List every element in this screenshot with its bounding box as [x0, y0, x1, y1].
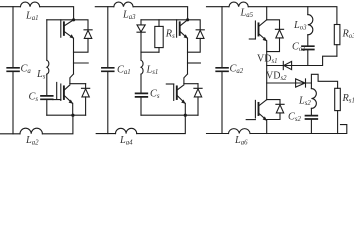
- diode VD7 antiparallel lower circuit 3: [267, 100, 284, 120]
- wire mid jog circuit 1: [70, 74, 74, 84]
- wire V3 emitter to mid node: [187, 38, 189, 74]
- resistor Rs1: [335, 88, 341, 110]
- node P2 junction dot: [186, 18, 189, 21]
- transistor V3 channel bar: [179, 22, 181, 35]
- svg-text:La1: La1: [25, 11, 39, 22]
- transistor V4 channel bar: [176, 86, 178, 99]
- inductor Ls1: [141, 60, 143, 74]
- wire V1 emitter to mid node: [73, 38, 75, 74]
- wire upper switch column circuit 3: [266, 7, 268, 20]
- transistor V6 gate bar: [254, 100, 256, 118]
- svg-text:Ls: Ls: [36, 69, 46, 80]
- wire V2 emitter to bottom node: [72, 103, 74, 115]
- inductor La3: [114, 2, 133, 7]
- wire V4 gate stub: [166, 83, 173, 85]
- transistor V5 channel bar: [258, 23, 260, 35]
- capacitor Ca: [7, 68, 19, 72]
- capacitor Co1: [302, 46, 314, 49]
- inductor La6: [229, 129, 251, 134]
- wire V4 emitter to bottom node: [184, 103, 186, 115]
- transistor V1 channel bar: [63, 22, 65, 35]
- wire left rail circuit 3: [221, 7, 223, 134]
- capacitor Ca2: [216, 68, 228, 72]
- transistor V3 emitter lead with arrow: [180, 32, 187, 38]
- transistor V4 emitter lead with arrow: [178, 96, 186, 103]
- wire top rail circuit 3: [207, 7, 337, 25]
- svg-text:La2: La2: [25, 135, 39, 145]
- resistor Rs: [158, 20, 160, 52]
- wire left rail circuit 1: [12, 7, 14, 134]
- wire lower collector net circuit 1: [70, 83, 86, 85]
- svg-text:Ca: Ca: [21, 64, 32, 75]
- inductor Ls: [47, 60, 49, 74]
- wire lower node horizontal circuit 1: [47, 114, 86, 116]
- inductor La4: [116, 128, 137, 133]
- wire top rail circuit 2: [95, 7, 187, 20]
- svg-text:Ro3: Ro3: [342, 29, 354, 40]
- svg-text:Co1: Co1: [292, 42, 306, 53]
- transistor V4 collector lead: [178, 85, 184, 90]
- svg-text:Cs: Cs: [150, 89, 160, 100]
- resistor Ro3: [334, 25, 340, 45]
- transistor V1 collector lead: [65, 20, 74, 26]
- capacitor Cs2: [306, 116, 318, 119]
- diode VDs1: [282, 61, 284, 69]
- inductor La1: [20, 2, 39, 7]
- svg-text:Ls2: Ls2: [298, 96, 311, 107]
- inductor La2: [20, 128, 42, 134]
- inductor Ls2: [311, 89, 316, 109]
- wire output stub circuit 1: [74, 62, 89, 64]
- wire upper gate net circuit 1: [47, 19, 74, 21]
- node P1 junction dot: [72, 18, 75, 21]
- wire V6 gate stub: [246, 119, 255, 121]
- node N1 junction dot: [71, 114, 74, 117]
- transistor V2 emitter lead with arrow: [65, 96, 73, 103]
- transistor V6 channel bar: [258, 103, 260, 115]
- transistor V5 collector lead: [259, 20, 267, 26]
- wire V6 emitter down: [266, 120, 268, 133]
- wire resonant branch vertical circuit 1: [46, 20, 48, 115]
- diode VDs2: [305, 79, 307, 87]
- inductor La5: [229, 2, 248, 7]
- transistor V1 gate bar: [60, 20, 62, 37]
- wire staircase to Rs1: [311, 74, 337, 88]
- capacitor Ca1: [102, 68, 114, 72]
- wire bottom rail circuit 1: [0, 115, 73, 134]
- svg-text:Rs: Rs: [165, 29, 175, 40]
- transistor V2 gate bar: [60, 84, 62, 100]
- wire output stub circuit 2: [188, 62, 201, 64]
- wire branch B vertical circuit 3: [310, 83, 312, 134]
- inductor Lo3: [308, 15, 313, 35]
- transistor V3 gate bar: [176, 20, 178, 37]
- svg-text:La3: La3: [122, 10, 136, 21]
- node N2 junction dot: [184, 114, 187, 117]
- wire bottom rail circuit 3: [207, 125, 347, 134]
- transistor V4 gate bar: [173, 84, 175, 100]
- diode VD2 antiparallel lower circuit 1: [82, 84, 90, 116]
- transistor V2 collector lead: [65, 85, 70, 90]
- diode VD3 antiparallel upper circuit 2: [188, 20, 205, 52]
- wire Rs bottom to diode bottom: [141, 51, 159, 53]
- wire upper gate net circuit 2: [141, 19, 188, 21]
- transistor V3 collector lead: [180, 20, 187, 26]
- transistor V6 emitter lead with arrow: [259, 114, 266, 121]
- diode VD6 antiparallel upper circuit 3: [267, 20, 284, 52]
- wire mid jog circuit 2: [184, 74, 188, 84]
- transistor V2 channel bar: [63, 86, 65, 99]
- wire left rail circuit 2: [107, 7, 109, 134]
- capacitor Cs circuit 2: [136, 93, 148, 97]
- svg-text:Lo3: Lo3: [293, 20, 307, 31]
- svg-text:La5: La5: [240, 8, 254, 19]
- wire bottom rail circuit 2: [96, 115, 185, 133]
- diode VD5 clamp circuit 2: [140, 20, 142, 52]
- transistor V6 collector lead: [259, 100, 267, 106]
- svg-text:VDs2: VDs2: [266, 71, 287, 82]
- svg-text:Ca1: Ca1: [117, 65, 131, 76]
- transistor V5 emitter lead with arrow: [259, 34, 266, 41]
- svg-text:Rs1: Rs1: [342, 93, 354, 104]
- wire V2 gate connection: [53, 82, 61, 99]
- wire VDs2 net: [267, 82, 312, 84]
- svg-text:Cs2: Cs2: [288, 112, 302, 123]
- transistor V1 emitter lead with arrow: [65, 32, 74, 38]
- svg-text:VDs1: VDs1: [257, 54, 278, 65]
- svg-text:La4: La4: [119, 135, 133, 145]
- wire VDs1 net: [267, 65, 308, 67]
- wire V5 emitter down: [266, 41, 268, 100]
- wire lower node horizontal circuit 2: [141, 114, 198, 116]
- wire branch A vertical circuit 3: [307, 7, 309, 66]
- wire resonant branch vertical circuit 2: [140, 52, 142, 115]
- transistor V5 gate bar: [254, 21, 256, 39]
- svg-text:La6: La6: [234, 135, 248, 145]
- wire lower collector net circuit 2: [184, 83, 198, 85]
- wire top rail circuit 1: [0, 7, 74, 20]
- capacitor Cs circuit 1: [41, 96, 53, 99]
- svg-text:Ca2: Ca2: [230, 64, 244, 75]
- svg-text:Ls1: Ls1: [146, 65, 159, 76]
- diode VD4 antiparallel lower circuit 2: [194, 84, 202, 116]
- wire staircase to Ro3: [308, 56, 337, 65]
- svg-text:Cs: Cs: [29, 92, 39, 103]
- diode VD1 antiparallel upper circuit 1: [74, 20, 93, 52]
- wire V5 gate stub: [249, 38, 255, 40]
